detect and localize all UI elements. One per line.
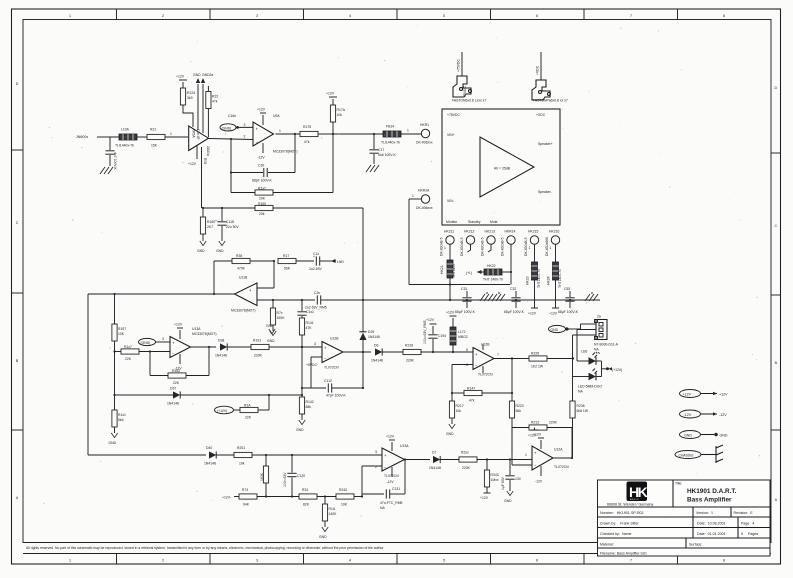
svg-text:R141: R141 [306, 321, 314, 325]
svg-text:D7: D7 [432, 451, 436, 455]
svg-text:R216: R216 [405, 344, 413, 348]
svg-text:U9A: U9A [273, 114, 280, 118]
wire to HKR1 [401, 129, 421, 135]
wire U12B output [343, 351, 371, 353]
legend +12V net [680, 390, 729, 398]
svg-text:+12V: +12V [174, 323, 183, 327]
svg-text:THT1400-70: THT1400-70 [558, 269, 562, 288]
svg-text:-12V: -12V [387, 480, 395, 484]
resistor R141 47K [299, 318, 313, 395]
connector HK216 [545, 230, 560, 257]
choke HK22 horizontal [466, 264, 511, 282]
svg-text:220K: 220K [462, 466, 471, 470]
svg-text:A: A [16, 496, 19, 500]
resistor R236 6k8 1W [570, 377, 589, 459]
svg-text:100n 63V: 100n 63V [283, 472, 287, 487]
U19B power pins [482, 344, 484, 373]
svg-text:160K: 160K [260, 472, 264, 481]
svg-text:+VDC: +VDC [536, 65, 540, 75]
svg-text:C30: C30 [258, 164, 264, 168]
svg-text:100u 63V_RM5: 100u 63V_RM5 [423, 320, 427, 344]
svg-text:THT1400: THT1400 [452, 264, 456, 278]
ground below R160 [197, 241, 206, 253]
svg-text:+75VDC: +75VDC [457, 59, 461, 72]
svg-text:1Mxx: 1Mxx [491, 478, 499, 482]
svg-text:68µF 100V-K: 68µF 100V-K [558, 310, 579, 314]
svg-text:TL072CN: TL072CN [478, 373, 493, 377]
node D37 line junction [268, 394, 270, 396]
svg-text:(GND): (GND) [222, 126, 232, 130]
left band letters [16, 82, 19, 500]
svg-text:TLI1440x-7b: TLI1440x-7b [115, 144, 134, 148]
resistor R191 220K [251, 339, 322, 358]
wire to T1 [165, 136, 188, 138]
svg-text:+: + [534, 451, 537, 456]
top band ticks [117, 9, 678, 20]
svg-text:20K: 20K [259, 197, 266, 201]
wire U9A output [276, 133, 301, 135]
svg-text:U13A: U13A [400, 444, 409, 448]
diode D40 [204, 446, 234, 466]
resistor R1x7b 22K [115, 345, 171, 361]
top band numbers [69, 14, 725, 18]
capacitor C2n series in bus [305, 291, 327, 310]
-12V pin below U12A [535, 466, 543, 484]
svg-text:10k: 10k [239, 462, 245, 466]
svg-text:FASTON6x0.8 Lxxx x7: FASTON6x0.8 Lxxx x7 [452, 99, 486, 103]
node U17A loop junctions [361, 495, 363, 497]
resistor R31 82K [299, 488, 336, 507]
wire HK215 down through choke [534, 244, 536, 262]
transistor input stage T1 (large triangle) [189, 126, 210, 156]
svg-text:NA: NA [594, 348, 599, 352]
wire R175 to ferrite FB14 [318, 133, 333, 135]
diode D29 vertical on x363 [359, 330, 380, 388]
svg-text:DK-830xB-5: DK-830xB-5 [501, 237, 505, 256]
node U11B output junctions [113, 293, 115, 295]
resistor R343 [480, 460, 499, 501]
svg-text:+: + [475, 352, 478, 357]
svg-text:C: C [16, 221, 19, 225]
svg-text:R242: R242 [339, 488, 347, 492]
svg-text:GND: GND [319, 535, 327, 539]
svg-text:56K: 56K [284, 267, 291, 271]
svg-text:4: 4 [349, 14, 351, 18]
svg-text:DK-830xB-5: DK-830xB-5 [481, 237, 485, 256]
svg-text:C2n: C2n [314, 291, 320, 295]
wire U17A output [405, 459, 431, 461]
svg-text:47pF 100V-K: 47pF 100V-K [326, 394, 347, 398]
node R343/C130 taps [486, 458, 488, 460]
U12A minus input wire [512, 428, 532, 466]
capacitor C112 [324, 379, 363, 398]
svg-text:4: 4 [349, 559, 351, 563]
svg-text:Mute: Mute [490, 220, 498, 224]
op-amp U12B [322, 337, 343, 370]
wire input to ferrite [97, 136, 110, 138]
power amp box [442, 109, 560, 225]
node R7x tap [272, 299, 274, 301]
svg-text:R1x1: R1x1 [118, 413, 126, 417]
svg-text:FB14: FB14 [386, 125, 394, 129]
capacitor C17 [369, 134, 396, 164]
svg-text:HK213: HK213 [485, 230, 495, 234]
svg-text:2A30a: 2A30a [206, 146, 210, 156]
svg-text:R124: R124 [187, 91, 195, 95]
svg-text:(+12V): (+12V) [217, 409, 227, 413]
svg-text:Speaker+: Speaker+ [538, 142, 553, 146]
resistor R1x7 20K loop [231, 134, 333, 201]
diode D7 [429, 451, 459, 471]
GND oval to J2A [549, 325, 581, 332]
svg-text:220K: 220K [549, 421, 558, 425]
node C112 right junction [362, 387, 364, 389]
svg-text:22K: 22K [125, 357, 132, 361]
svg-text:94K: 94K [243, 503, 250, 507]
svg-text:1: 1 [444, 246, 446, 250]
wire T1 source down to R160 node [201, 147, 203, 208]
svg-text:Version: 1: Version: 1 [696, 511, 713, 515]
svg-text:R160: R160 [258, 202, 266, 206]
svg-text:1: 1 [407, 129, 409, 133]
svg-text:HK: HK [629, 484, 648, 500]
resistor R1x 160K vertical [260, 455, 269, 497]
svg-text:Material:: Material: [600, 543, 614, 547]
svg-text:GND: GND [296, 428, 304, 432]
svg-text:4n7 100V-K: 4n7 100V-K [113, 152, 117, 170]
(+12V) oval with resistor R1A 22K [215, 395, 270, 420]
resistor R1x1 5k6 [109, 410, 127, 445]
wire U11B output left [88, 293, 235, 295]
svg-text:HK23: HK23 [526, 276, 530, 285]
svg-text:-12V: -12V [258, 156, 266, 160]
svg-text:C194: C194 [438, 334, 446, 338]
op-amp U19B [466, 343, 494, 377]
svg-text:1: 1 [69, 14, 71, 18]
svg-text:3: 3 [244, 123, 246, 127]
svg-text:+5VDC: +5VDC [306, 363, 318, 367]
svg-text:+12V: +12V [326, 92, 335, 96]
svg-text:GND2a: GND2a [202, 73, 213, 77]
svg-text:R236: R236 [577, 404, 585, 408]
svg-text:DK-830x666: DK-830x666 [545, 237, 549, 256]
svg-text:Date: 01.01.2001: Date: 01.01.2001 [697, 532, 726, 536]
svg-text:R213: R213 [531, 421, 539, 425]
svg-text:+12V: +12V [683, 393, 692, 397]
svg-text:+VDC: +VDC [536, 113, 546, 117]
svg-text:MC33078(MOT): MC33078(MOT) [231, 309, 256, 313]
svg-text:A: A [775, 498, 778, 502]
junction at T1 output [230, 138, 232, 140]
svg-text:U12B: U12B [481, 343, 490, 347]
+12V pin above U17A [386, 435, 395, 452]
svg-text:HK216: HK216 [549, 230, 559, 234]
svg-text:R1A: R1A [329, 507, 336, 511]
svg-text:(GND): (GND) [141, 341, 151, 345]
svg-text:220K: 220K [406, 359, 415, 363]
svg-text:R17A: R17A [337, 108, 346, 112]
svg-text:L172: L172 [458, 330, 466, 334]
svg-text:HK22: HK22 [487, 264, 496, 268]
resistor R17A vertical top [330, 99, 345, 134]
-12V pin below U9A [258, 143, 266, 160]
svg-text:R05: R05 [203, 158, 207, 164]
svg-text:NA: NA [380, 506, 385, 510]
capacitor C194 [423, 318, 446, 352]
svg-text:D29: D29 [368, 330, 374, 334]
svg-text:10k: 10k [456, 409, 462, 413]
svg-text:1: 1 [279, 129, 281, 133]
svg-text:HK24: HK24 [547, 276, 551, 285]
svg-text:C1x1: C1x1 [306, 310, 314, 314]
svg-text:C0n1R: C0n1R [196, 129, 200, 140]
svg-text:6: 6 [536, 559, 538, 563]
svg-text:8: 8 [723, 14, 725, 18]
svg-text:(+L): (+L) [466, 271, 472, 275]
diode D37 lower wire [115, 387, 303, 406]
svg-text:U12B: U12B [330, 337, 339, 341]
resistor R2x 220K [459, 451, 532, 471]
svg-text:470K: 470K [237, 267, 246, 271]
svg-text:R160: R160 [207, 220, 215, 224]
svg-text:1: 1 [412, 194, 414, 198]
svg-text:+: + [324, 346, 327, 351]
svg-text:R1A: R1A [244, 404, 251, 408]
svg-text:LED-5MM-DUO: LED-5MM-DUO [578, 385, 602, 389]
svg-text:22K: 22K [245, 416, 252, 420]
capacitor C32 [504, 287, 525, 314]
resistor R242 10K [336, 488, 362, 507]
resistor R21 [147, 128, 165, 148]
svg-text:MC33078(MOT): MC33078(MOT) [273, 150, 298, 154]
svg-text:CHASSIS: CHASSIS [679, 454, 695, 458]
svg-text:6: 6 [466, 363, 468, 367]
svg-text:68pF 100V-K: 68pF 100V-K [252, 179, 273, 183]
wire HK211 down [449, 244, 451, 260]
+12V tick below R213 [528, 428, 538, 438]
svg-text:GND: GND [267, 339, 275, 343]
wire [137, 136, 147, 138]
svg-text:THT1400-70: THT1400-70 [537, 269, 541, 288]
feedback resistor R35 470K [214, 254, 274, 294]
svg-text:2K7: 2K7 [207, 225, 213, 229]
svg-text:R31: R31 [302, 488, 308, 492]
wire U11B plus input from divider [257, 260, 275, 288]
ferrite FB14 [381, 125, 401, 145]
inductor L10A [115, 128, 137, 148]
svg-text:LD6: LD6 [581, 350, 587, 354]
capacitor C31 [455, 287, 476, 314]
node U12A output junction [571, 457, 573, 459]
svg-text:C16n: C16n [228, 114, 236, 118]
svg-text:+: + [172, 341, 175, 346]
svg-text:TLI1440x-7b: TLI1440x-7b [381, 141, 400, 145]
U19B feedback rail x452 [452, 365, 473, 394]
svg-text:C118: C118 [226, 220, 234, 224]
resistor R220 56k [509, 401, 523, 452]
svg-text:GND: GND [266, 324, 274, 328]
svg-text:TL072CN: TL072CN [554, 465, 569, 469]
+12V label below HK23 [528, 308, 538, 316]
svg-text:DK-830xB-5: DK-830xB-5 [460, 237, 464, 256]
svg-text:3k9: 3k9 [187, 96, 193, 100]
svg-text:R343: R343 [491, 473, 499, 477]
resistor R217 10k to gnd [446, 393, 464, 436]
svg-text:6k8 1W: 6k8 1W [577, 409, 589, 413]
node bus/rail junction [362, 299, 364, 301]
diode D38 [215, 339, 251, 358]
resistor R201 10k [234, 446, 382, 466]
svg-text:HK1901 D.A.R.T.: HK1901 D.A.R.T. [687, 488, 737, 495]
svg-text:A U D I O: A U D I O [630, 498, 639, 501]
node C32 bus tap [515, 299, 517, 301]
svg-text:3: 3 [314, 342, 316, 346]
svg-text:+: + [215, 219, 217, 223]
svg-text:47K: 47K [306, 326, 313, 330]
bus wire y300 [325, 299, 600, 301]
svg-text:R7x: R7x [277, 311, 283, 315]
+12V tick above R17A [326, 92, 337, 98]
svg-text:+12V: +12V [528, 434, 537, 438]
svg-text:2u2 63V_RM5: 2u2 63V_RM5 [305, 306, 327, 310]
svg-text:47n-FTC_RM5: 47n-FTC_RM5 [380, 501, 403, 505]
svg-text:GND: GND [504, 499, 512, 503]
svg-text:7: 7 [630, 14, 632, 18]
svg-text:3: 3 [256, 14, 258, 18]
capacitor C130 [501, 460, 521, 504]
+12V pin above U13A [174, 323, 183, 340]
svg-text:HKR1A: HKR1A [418, 189, 430, 193]
resistor R147 47k feedback [452, 387, 512, 403]
svg-text:GND: GND [197, 249, 205, 253]
svg-text:JN600x: JN600x [76, 135, 88, 139]
svg-text:U11B: U11B [239, 276, 248, 280]
svg-text:+75VDC: +75VDC [447, 113, 460, 117]
svg-text:Filename: Bass Amplifier.Sch: Filename: Bass Amplifier.Sch [600, 552, 647, 556]
svg-text:U12A: U12A [554, 448, 563, 452]
svg-text:1N4148: 1N4148 [167, 402, 179, 406]
svg-text:D6: D6 [374, 344, 378, 348]
+12V label below HK24 [549, 308, 559, 316]
svg-text:GND: GND [109, 441, 117, 445]
svg-text:1µF 63V: 1µF 63V [501, 476, 505, 490]
svg-text:MBG2: MBG2 [458, 335, 468, 339]
resistor R157 10K [112, 324, 126, 410]
svg-text:1N4146: 1N4146 [368, 335, 380, 339]
wire HKR14 down [510, 244, 512, 284]
svg-text:47k: 47k [304, 140, 310, 144]
FASTON connector F1 [452, 52, 486, 103]
svg-text:10K: 10K [118, 332, 125, 336]
svg-text:AV = 25dB: AV = 25dB [494, 167, 511, 171]
svg-text:R217: R217 [456, 404, 464, 408]
+12V pin above U9A [257, 108, 266, 126]
-12V pin below T1 [188, 145, 197, 166]
op-amp U9A [253, 114, 298, 154]
svg-text:2u2-63V: 2u2-63V [309, 267, 323, 271]
resistor R7x 150K to ground [267, 300, 285, 343]
resistor R142 68k [296, 395, 314, 432]
GND up-arrows above T1 [193, 73, 201, 130]
wire vertical x409 [408, 199, 410, 285]
HK logo [627, 482, 648, 502]
svg-text:C: C [774, 224, 777, 228]
resistor R74 94K [234, 488, 299, 507]
node U12B output junction [362, 351, 364, 353]
chassis ground at input [100, 167, 113, 174]
svg-text:1N4148: 1N4148 [215, 354, 227, 358]
connector HKR14 [501, 230, 516, 257]
node C112/R142 junctions [301, 387, 303, 389]
svg-text:68µF 100V-K: 68µF 100V-K [455, 310, 476, 314]
feedback capacitor C30 loop [231, 134, 295, 183]
svg-text:MC33078(MOT): MC33078(MOT) [192, 332, 217, 336]
svg-text:1K2 1W: 1K2 1W [531, 365, 544, 369]
svg-text:+: + [256, 127, 259, 132]
-12V pin below U13A [175, 354, 183, 371]
svg-text:R2xx: R2xx [461, 451, 469, 455]
svg-text:Checked by: Name: Checked by: Name [600, 532, 632, 536]
node +5VDC junction [301, 346, 303, 348]
svg-text:GND: GND [193, 73, 201, 77]
(GND) oval to U13A input [139, 337, 171, 346]
svg-text:HKR14: HKR14 [505, 230, 516, 234]
svg-text:Surface:: Surface: [689, 543, 702, 547]
left band row ticks [12, 150, 24, 430]
wire U12A output to feedback [553, 428, 572, 459]
svg-text:47k: 47k [469, 399, 475, 403]
legend GND net [680, 431, 728, 439]
svg-text:R157: R157 [118, 327, 126, 331]
svg-text:+12V◦: +12V◦ [222, 496, 232, 500]
node R229 output junction [572, 357, 574, 359]
svg-text:7: 7 [497, 353, 499, 357]
svg-text:66606 St. Wendel / Germany: 66606 St. Wendel / Germany [607, 503, 653, 507]
svg-text:R191: R191 [253, 339, 261, 343]
GND arrow right of C1x [331, 259, 344, 264]
rail x512 down [511, 359, 513, 402]
svg-text:R175: R175 [303, 125, 311, 129]
svg-text:6: 6 [536, 14, 538, 18]
svg-text:C53: C53 [564, 287, 570, 291]
feedback resistor R162 22K [150, 347, 209, 385]
svg-text:22K: 22K [173, 381, 180, 385]
connector HKR1 [416, 123, 433, 145]
svg-text:1: 1 [529, 246, 531, 250]
svg-text:+12V: +12V [480, 496, 489, 500]
svg-text:R220: R220 [516, 404, 524, 408]
wire vertical x363 upper [362, 208, 364, 330]
node left rail junctions [113, 350, 115, 352]
bottom band numbers [69, 559, 725, 563]
resistor R175 [300, 125, 318, 144]
svg-text:DK-830xB-5: DK-830xB-5 [440, 237, 444, 256]
long wire y455 [88, 454, 206, 456]
svg-text:R35: R35 [236, 254, 242, 258]
svg-text:1: 1 [170, 132, 172, 136]
svg-text:Drawn by: Frank Sitter: Drawn by: Frank Sitter [600, 522, 640, 526]
svg-text:D37: D37 [170, 387, 176, 391]
diode D6 [371, 344, 403, 363]
feedback resistor R213 220K [512, 421, 572, 431]
wire T1 out to U9A [209, 139, 254, 140]
svg-text:2: 2 [162, 559, 164, 563]
svg-text:+12V: +12V [446, 311, 455, 315]
node rail x512 junction [511, 392, 513, 394]
wire choke to bus [449, 278, 451, 300]
connector HKR1A [416, 189, 433, 211]
svg-text:5: 5 [443, 14, 445, 18]
